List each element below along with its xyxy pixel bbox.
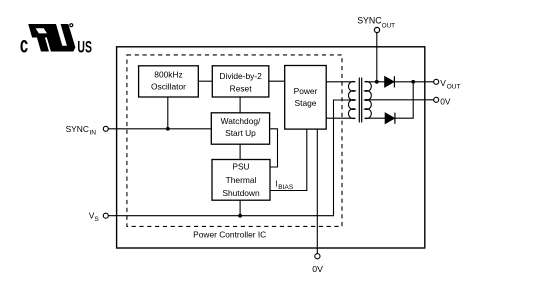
label IBIAS xyxy=(275,178,293,191)
diode D2 bottom rectifier xyxy=(385,113,395,124)
wire divide-by-2 bottom to watchdog top xyxy=(239,97,241,113)
divide block Divide-by-2 Reset xyxy=(212,66,268,97)
PSU thermal shutdown block xyxy=(212,160,270,201)
svg-text:Thermal: Thermal xyxy=(226,175,257,185)
svg-text:SYNC: SYNC xyxy=(66,124,89,134)
svg-text:PSU: PSU xyxy=(232,162,249,172)
wire oscillator bottom to SYNC_IN line xyxy=(167,97,169,129)
transformer T1 secondary winding xyxy=(365,81,372,118)
svg-text:800kHz: 800kHz xyxy=(154,70,182,80)
UL logo letter c xyxy=(20,32,28,58)
wire PSU bottom to Vs line xyxy=(239,200,241,216)
watchdog block Watchdog/Start Up xyxy=(211,113,269,144)
label Power Controller IC xyxy=(193,229,266,239)
svg-text:Stage: Stage xyxy=(295,98,317,108)
wire oscillator to divide-by-2 xyxy=(198,80,212,82)
svg-text:Shutdown: Shutdown xyxy=(222,188,260,198)
dashed Power Controller IC boundary box xyxy=(127,55,342,227)
terminal Vs xyxy=(89,211,109,224)
junction node on SYNC_IN line xyxy=(166,127,170,131)
svg-text:IN: IN xyxy=(89,130,96,137)
svg-text:BIAS: BIAS xyxy=(278,184,294,191)
terminal 0V right xyxy=(434,96,451,106)
svg-text:S: S xyxy=(94,216,99,223)
junction node SYNC_OUT tap xyxy=(375,80,379,84)
svg-text:0V: 0V xyxy=(312,264,323,274)
svg-text:Reset: Reset xyxy=(230,83,253,93)
terminal SYNC_OUT xyxy=(357,15,395,32)
UL logo letters US xyxy=(77,37,92,56)
terminal VOUT xyxy=(434,78,461,91)
svg-text:Oscillator: Oscillator xyxy=(151,81,186,91)
wire IBIAS from PSU to power stage bottom xyxy=(270,129,307,190)
wire watchdog bottom to PSU top xyxy=(239,144,241,159)
wire watchdog right to PSU right (wrap) xyxy=(270,129,278,167)
transformer core xyxy=(359,78,361,123)
UL recognized component mark logo xyxy=(28,24,75,52)
terminal SYNC_IN xyxy=(66,124,109,137)
diode D1 top rectifier xyxy=(385,76,395,87)
UL logo degree circle xyxy=(70,24,73,27)
wire divide-by-2 to power stage xyxy=(269,80,285,82)
junction node VOUT xyxy=(411,80,415,84)
svg-text:V: V xyxy=(440,78,446,88)
wire SYNC_OUT drop xyxy=(376,33,378,82)
svg-text:SYNC: SYNC xyxy=(357,15,382,25)
terminal 0V bottom xyxy=(312,254,323,275)
junction node on Vs line xyxy=(238,214,242,218)
svg-text:Power Controller IC: Power Controller IC xyxy=(193,229,266,239)
wire power stage to transformer primary top xyxy=(326,81,355,83)
wire secondary center tap to 0V terminal xyxy=(365,99,434,101)
power stage block xyxy=(285,66,327,130)
svg-text:Watchdog/: Watchdog/ xyxy=(221,116,261,126)
wire secondary top to diode D1 xyxy=(365,81,385,83)
wire diode D1 to VOUT terminal xyxy=(394,81,433,83)
svg-text:OUT: OUT xyxy=(382,23,396,30)
svg-text:OUT: OUT xyxy=(447,84,461,91)
wire Vs to power stage via wrap around xyxy=(108,100,355,216)
wire secondary bottom to diode D2 xyxy=(365,117,385,119)
wire SYNC_IN to watchdog xyxy=(108,128,211,130)
svg-text:US: US xyxy=(77,37,92,56)
outer solid enclosure box xyxy=(117,47,425,248)
svg-text:Power: Power xyxy=(294,86,318,96)
svg-text:Divide-by-2: Divide-by-2 xyxy=(219,71,262,81)
transformer T1 primary winding xyxy=(348,81,355,118)
svg-text:c: c xyxy=(20,32,28,58)
wire power stage to transformer primary bottom xyxy=(326,117,355,119)
svg-text:Start Up: Start Up xyxy=(225,128,256,138)
oscillator block U1 800kHz Oscillator xyxy=(139,66,199,97)
wire diode D2 up to VOUT line xyxy=(395,82,413,118)
wire power stage bottom to 0V terminal xyxy=(316,129,318,254)
svg-text:0V: 0V xyxy=(440,96,451,106)
